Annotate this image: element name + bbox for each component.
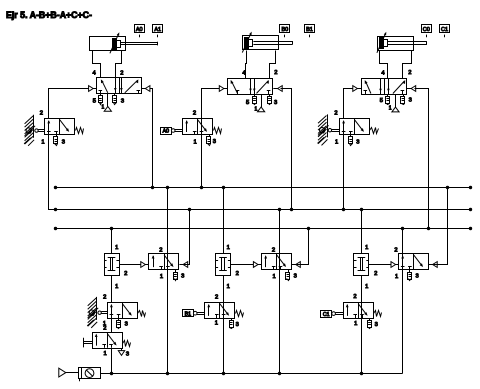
svg-text:2: 2 [236,271,239,277]
svg-text:1: 1 [335,140,338,146]
silencer on port 3 of VC [403,94,405,97]
silencer on port 3 of V3 [409,270,411,273]
cascade 3/2 valve V1 (inline) [167,187,169,374]
silencer on port 3 of limit C0 [118,318,120,321]
svg-text:C1: C1 [441,27,448,33]
wire Z2 bottom through limit valve B1 to supply line [223,275,225,374]
svg-text:A1: A1 [154,27,161,33]
wire Z1 bottom to limit valve C0 port 2 [111,275,113,302]
svg-text:3: 3 [415,274,418,280]
pilot port 12 (right) of valve VA [145,86,150,92]
cascade 3/2 valve V3 (inline, actuated) [402,229,404,374]
svg-text:2: 2 [120,70,123,76]
svg-text:2: 2 [394,247,397,253]
svg-text:B1: B1 [306,27,313,33]
pilot of valve V2 [253,262,258,268]
wire bus 3 to two-pressure valve Z1 top [111,228,113,253]
bus line 2 (group II signal) [55,209,470,211]
svg-text:1: 1 [227,284,230,290]
svg-text:1: 1 [255,106,258,112]
svg-text:3: 3 [62,140,65,146]
sensor label B1 [305,25,315,33]
pilot port 14 (left) of valve VC [353,86,358,92]
silencer on port 3 of V1 [175,270,177,273]
air service unit [79,368,101,379]
3/2 roller limit valve C1 [344,303,374,319]
push actuator of valve S1 [83,338,85,348]
svg-text:1: 1 [227,245,230,251]
svg-text:2: 2 [159,247,162,253]
3/2 roller limit valve A0 [183,119,213,135]
wire bus 2 to two-pressure valve Z3 top [361,209,363,253]
svg-text:2: 2 [103,325,106,331]
svg-text:1: 1 [389,106,392,112]
wire limit valve B0 port 1 to bus line 2 [49,135,56,210]
svg-text:Ejr 5. A-B+B-A+C+C-: Ejr 5. A-B+B-A+C+C- [6,10,92,20]
svg-text:4: 4 [92,70,96,76]
wire limit valve B0 output to pilot of VA [49,89,89,119]
cylinder C (double-acting, retracted) [378,37,414,51]
compressed air source [59,368,66,377]
svg-text:3: 3 [294,274,297,280]
svg-text:5: 5 [93,99,96,105]
svg-text:1: 1 [193,140,196,146]
svg-text:3: 3 [125,321,128,327]
junction dots on supply line [110,372,113,375]
pilot port 12 (right) of valve VB [278,86,283,92]
svg-text:1: 1 [215,321,218,327]
svg-text:1: 1 [395,274,398,280]
silencer on port 5 of VC [387,94,389,97]
svg-text:1: 1 [365,245,368,251]
wire cylinder A right port to valve V1 port 2 [116,51,122,78]
svg-text:2: 2 [274,70,277,76]
wire cylinder C right port to valve VC port 2 [403,51,412,79]
svg-text:1: 1 [160,274,163,280]
pilot port 14 (left) of valve VB [219,86,224,92]
supply line (P) [101,373,403,375]
3/2 roller limit valve A1 (actuated) [340,119,370,135]
pilot of valve V3 [391,262,396,268]
svg-text:2: 2 [408,70,411,76]
3/2 roller limit valve B0 (actuated) [45,119,75,135]
two-pressure valve Z2 [216,254,231,276]
svg-text:2: 2 [272,247,275,253]
svg-text:1: 1 [103,351,106,357]
wire limit C0 port 1 to start valve port 2 [111,318,113,332]
wire cylinder C left port to valve VC port 4 [380,51,388,79]
svg-text:3: 3 [409,98,412,104]
wire cylinder B right port to valve VB port 2 [270,51,276,79]
wire Z3 bottom through limit valve C1 to supply line [361,275,363,374]
sensor label A0 [135,25,145,33]
svg-text:5: 5 [246,100,249,106]
silencer on port 3 of limit C1 [369,318,371,321]
svg-text:3: 3 [274,100,277,106]
svg-text:B0: B0 [281,27,288,33]
svg-text:1: 1 [354,321,357,327]
svg-text:2: 2 [40,111,43,117]
air supply triangle port 1 of VC [395,94,397,107]
svg-text:3: 3 [236,322,239,328]
air supply triangle port 1 of VB [261,94,263,107]
pilot of valve V1 [141,262,146,268]
svg-text:3: 3 [121,99,124,105]
silencer on port 3 of VA [114,93,116,96]
svg-text:2: 2 [334,111,337,117]
svg-text:C0: C0 [423,27,430,33]
sensor label A1 [153,25,163,33]
sensor label C0 [422,25,432,33]
silencer on port 3 of limit A1 [350,134,352,137]
wire right pilot of VB down to bus line 2 [281,89,292,210]
svg-text:1: 1 [272,274,275,280]
svg-text:3: 3 [213,139,216,145]
junction dots on bus line 1 [54,186,57,189]
svg-text:1: 1 [115,245,118,251]
wire Z3 output to left pilot of valve V3 [369,264,391,266]
silencer on port 3 of VB [269,94,271,97]
svg-text:1: 1 [41,140,44,146]
wire Z2 output to left pilot of valve V2 [231,264,254,266]
wire valve S1 port 1 to supply line [111,349,113,374]
wire limit valve A1 port 1 to bus line 2 [343,134,345,209]
svg-text:3: 3 [126,352,129,358]
svg-text:2: 2 [374,271,377,277]
wire cylinder B left port to valve VB port 4 [246,51,247,79]
sensor label C1 [440,25,450,33]
svg-text:3: 3 [356,140,359,146]
pilot port 12 (right) of valve VC [411,86,416,92]
right pilot of valve V2 to bus line 3 [296,262,301,268]
cylinder B (double-acting, retracted) [243,36,279,50]
silencer on port 3 of limit B1 [231,318,233,321]
bus line 3 (group III signal) [55,228,470,230]
svg-text:4: 4 [381,70,385,76]
right pilot of valve V3 to bus line 1 [433,262,438,268]
silencer on port 3 of limit A0 [209,134,211,137]
wire valve VB left pilot down through limit valve A0 to bus line 1 [202,89,220,188]
air supply triangle port 1 of VA [107,93,109,106]
svg-text:B1: B1 [185,311,191,317]
svg-text:2: 2 [124,271,127,277]
two-pressure valve Z3 [354,254,369,276]
silencer on port 5 of VA [100,93,102,96]
junction dots on bus line 3 [54,227,57,230]
silencer on port 3 of limit B0 [56,134,58,137]
5/2 impulse valve VA [97,78,142,94]
exhaust triangle port 3 of S1 [121,349,123,351]
wire cylinder A left port to valve V1 port 4 [93,51,101,78]
svg-text:C1: C1 [323,312,330,318]
bus line 1 (group I signal) [55,187,470,189]
3/2 roller limit valve B1 [205,303,235,319]
svg-text:2: 2 [215,295,218,301]
sensor label B0 [280,25,290,33]
wire right pilot of VC down to bus line 3 [415,89,429,229]
3/2 roller limit valve C0 (actuated) [108,303,138,319]
silencer on port 3 of V2 [288,270,290,273]
wire right pilot of VA down to bus line 1 [150,89,153,188]
junction dots on bus line 2 [54,208,57,211]
svg-text:A0: A0 [136,27,143,33]
wire limit valve A1 output to left pilot of VC [344,89,353,119]
wire Z1 output to left pilot of valve V1 [119,264,141,266]
svg-text:A0: A0 [163,129,169,135]
svg-text:5: 5 [380,98,383,104]
pilot port 14 (left) of valve VA [89,86,94,92]
svg-text:1: 1 [115,284,118,290]
cylinder A (double-acting, extended) [90,37,126,51]
svg-text:3: 3 [375,322,378,328]
5/2 impulse valve VB [228,79,273,95]
svg-text:1: 1 [102,105,105,111]
svg-text:1: 1 [365,284,368,290]
cascade 3/2 valve V2 (inline) [279,209,281,373]
two-pressure valve Z1 [105,254,120,276]
silencer on port 5 of VB [254,94,256,97]
5/2 impulse valve VC [362,79,407,95]
svg-text:2: 2 [103,295,106,301]
right pilot of valve V1 to bus line 2 [183,262,188,268]
svg-text:2: 2 [193,111,196,117]
svg-text:3: 3 [181,274,184,280]
svg-text:2: 2 [353,294,356,300]
wire bus 1 to two-pressure valve Z2 top [223,187,225,253]
3/2 manual start valve S1 [93,333,123,349]
